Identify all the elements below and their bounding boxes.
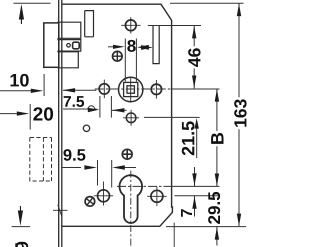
arrow 29.5 bottom	[215, 227, 219, 240]
extension follower center	[95, 88, 172, 90]
label B	[211, 133, 223, 144]
label 20	[33, 107, 53, 120]
screw head upper	[113, 51, 123, 61]
label fragment bottom left	[16, 242, 28, 247]
arrow 21.5 bottom	[195, 118, 199, 129]
arrow 46 up	[192, 26, 196, 39]
faceplate screw slot	[53, 209, 68, 211]
label 7.5	[64, 96, 84, 107]
latch housing box B	[57, 40, 80, 52]
arrow 20	[17, 111, 30, 115]
corner centerline	[173, 223, 175, 247]
label 9.5	[63, 149, 85, 161]
arrow up left	[19, 4, 24, 20]
arrow 10	[31, 89, 44, 93]
cylinder flank hole right	[151, 190, 163, 202]
dim 8 extensions	[124, 39, 126, 82]
lock case outline	[62, 4, 172, 226]
left top extension line	[14, 2, 51, 4]
extension bottom	[166, 226, 246, 228]
top hole circle	[125, 20, 136, 31]
cylinder flank hole left	[98, 190, 110, 202]
dim 163 line	[238, 3, 240, 226]
small plain hole	[83, 125, 89, 131]
cylinder crosshair	[130, 171, 132, 247]
dim B line	[216, 89, 218, 186]
arrow 7.5 right	[88, 108, 100, 112]
screw head center	[122, 149, 132, 159]
arrow 8 left	[113, 45, 125, 49]
latch housing box A	[57, 22, 80, 38]
hole below follower	[126, 113, 136, 123]
spring detail square	[73, 42, 80, 49]
arrow 9.5 left	[84, 165, 97, 169]
arrow 163 down	[237, 214, 241, 227]
follower square outer	[124, 82, 138, 96]
arrow B down	[215, 174, 219, 187]
hidden dashed rect	[30, 138, 52, 182]
dim 9.5 arrow shaft left	[63, 167, 82, 169]
dim 21.5 arrow shafts	[196, 127, 198, 158]
follower square inner	[127, 86, 134, 93]
arrow B up	[215, 89, 219, 102]
latch bolt	[44, 23, 59, 67]
dim 9.5 right arrow shaft	[119, 167, 137, 169]
left bottom extension line	[12, 226, 30, 228]
label 8	[127, 40, 135, 52]
vertical slot right	[153, 26, 159, 64]
euro profile cylinder hole	[120, 175, 143, 223]
dim 8 right arrow shaft	[143, 47, 147, 49]
follower flank hole left	[99, 84, 109, 94]
extension top right 163	[170, 2, 244, 4]
follower flank hole right	[151, 84, 161, 94]
dim 20 line	[0, 113, 21, 115]
latch housing box C	[57, 52, 78, 68]
extension 46 top	[148, 25, 201, 27]
arrow 8 right	[137, 45, 149, 50]
extension holes center	[175, 195, 221, 197]
arrow to slot	[141, 45, 153, 50]
arrow 7 bottom	[192, 196, 196, 209]
label 7	[181, 209, 192, 217]
dim 7.5 right arrow shaft	[112, 109, 127, 111]
dim 29.5 bottom arrow shaft	[216, 227, 218, 246]
dim 7.5 extensions	[99, 96, 101, 118]
dim 9.5 extensions	[97, 160, 99, 186]
dim 20 extension	[29, 104, 31, 130]
label 46	[188, 48, 200, 67]
label 10	[11, 74, 29, 87]
arrow 163 up	[237, 4, 241, 17]
follower crosshair	[130, 77, 132, 103]
top hole crosshair	[121, 24, 140, 26]
arrow down left-bottom	[18, 211, 23, 226]
dim 46 line	[193, 26, 195, 89]
dim 7 arrow shafts	[194, 167, 196, 217]
dim 10 line	[0, 90, 32, 92]
spring detail circle	[67, 44, 71, 48]
dim 7.5 upper arrow line	[63, 89, 96, 91]
arrow 7.5 to faceplate	[63, 88, 76, 92]
label 163	[234, 99, 246, 126]
dim 10 extension	[43, 74, 45, 96]
dim 7.5 line with jump	[63, 106, 97, 109]
label 29.5	[208, 192, 220, 224]
arrow 46 down / 21.5 top	[192, 76, 196, 89]
faceplate	[58, 0, 60, 247]
follower outer circle U1	[119, 77, 143, 101]
vertical slot left	[85, 11, 94, 37]
arrow 7 top	[192, 173, 196, 186]
extension 21.5 bottom	[144, 116, 200, 118]
extension cylinder center	[117, 185, 172, 187]
arrowheads	[17, 4, 241, 240]
dim 8 left arrow shaft	[108, 46, 119, 48]
arrow 7.5 outside right	[112, 108, 125, 112]
label 21.5	[182, 121, 195, 155]
arrow 9.5 right	[112, 165, 125, 169]
screw head lower	[85, 197, 95, 207]
